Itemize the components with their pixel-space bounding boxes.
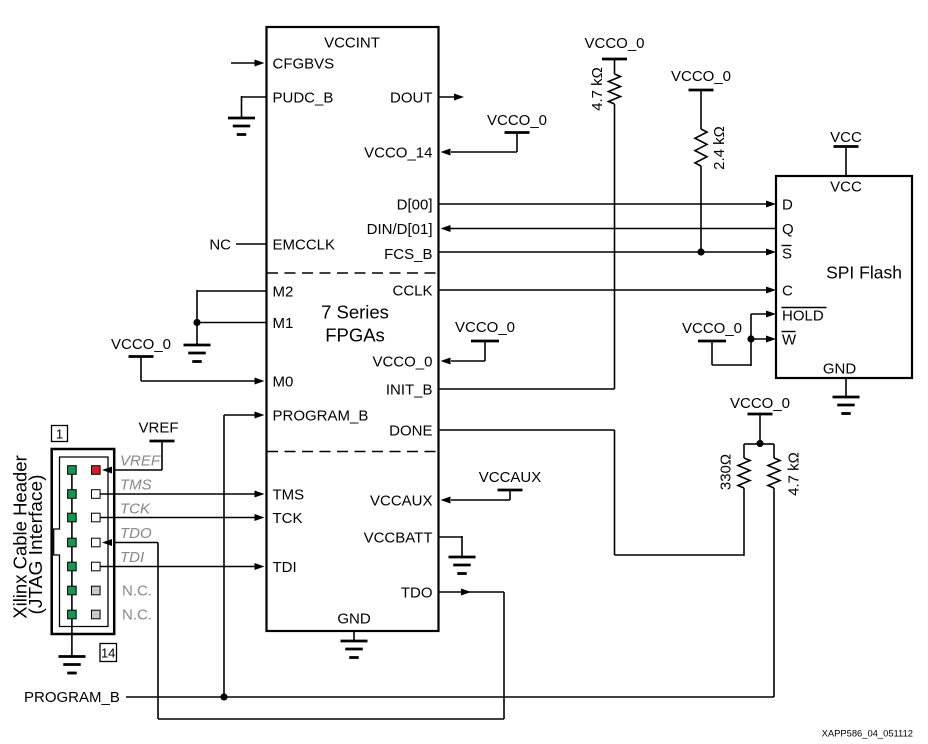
wire FCS_B to flash S with arrow [439,249,777,256]
ground at SPI flash [833,397,860,414]
svg-text:Q: Q [782,221,794,238]
label NC [209,236,231,253]
JTAG header left pin 5 [68,513,77,522]
svg-text:TCK: TCK [273,510,303,527]
junction dot R3/R4 [756,440,763,447]
svg-text:PUDC_B: PUDC_B [273,89,334,106]
FPGA pin label VCCBATT [364,529,433,546]
JTAG header left pin 7 [68,538,77,547]
wire TMS to FPGA with arrow [100,491,265,498]
wire NC to EMCCLK [236,243,267,245]
wire TCK to FPGA with arrow [100,514,265,521]
SPI flash label VCC [830,178,862,195]
svg-text:VCCAUX: VCCAUX [370,492,433,509]
FPGA U1 7 Series FPGAs body [267,27,439,631]
power VCCO_0 bar at R1 [602,58,627,61]
JTAG header left pin 13 [68,610,77,619]
FPGA internal dashed separator lower [267,451,438,453]
wire M2 [197,290,267,292]
junction dot M1/M2 [193,319,200,326]
power VCCO_0 label at FPGA VCCO_0 [455,319,515,336]
label R3 330 Ohm [718,454,735,490]
FPGA pin label EMCCLK [273,236,336,253]
svg-text:N.C.: N.C. [122,606,152,623]
FPGA pin label FCS_B [384,246,432,263]
JTAG signal label TDI [120,549,144,566]
wire PUDC_B to ground [242,96,267,118]
wire junction to R3 top [744,444,760,458]
JTAG label N.C. pin 11 [122,582,152,599]
svg-text:TDI: TDI [120,549,144,566]
svg-text:VCCAUX: VCCAUX [479,469,542,486]
svg-text:C: C [782,282,793,299]
FPGA pin label TMS [273,486,305,503]
JTAG header right pin 14 NC [92,610,101,619]
power VREF bar [150,440,175,443]
JTAG header right pin 6 TCK [92,513,101,522]
wire to W with arrow [751,336,776,343]
svg-text:(JTAG Interface): (JTAG Interface) [25,475,46,615]
FPGA pin label TDO [401,584,433,601]
JTAG signal label TMS [120,477,152,494]
power VCCAUX label [479,469,542,486]
svg-text:PROGRAM_B: PROGRAM_B [273,407,369,424]
wire junction to R4 top [760,444,774,458]
JTAG header right pin 4 TMS [92,490,101,499]
FPGA internal dashed separator upper [267,272,438,274]
JTAG signal label TDO [120,525,152,542]
wire PROGRAM_B vertical to pin with arrow [224,412,265,698]
SPI flash pin label S with overline [782,245,793,262]
svg-text:2.4 kΩ: 2.4 kΩ [711,126,728,170]
power VCCO_0 label at R2 [671,68,731,85]
wire VCCO_0 to VCCO_14 with arrow [441,133,518,156]
svg-text:VCCO_14: VCCO_14 [364,144,432,161]
svg-text:TDO: TDO [120,525,152,542]
ground at JTAG header [59,657,86,674]
svg-text:DONE: DONE [389,422,432,439]
wire VCCO_0 to FPGA pin with arrow [441,341,486,365]
wire VCCO_0 to HOLD and W [712,314,751,366]
power VCCO_0 label at DONE pullups [730,395,790,412]
SPI flash pin label C [782,282,793,299]
power VCCAUX bar [498,489,523,492]
svg-text:DIN/D[01]: DIN/D[01] [367,221,433,238]
SPI flash pin label W with overline [782,331,798,348]
svg-text:VCCBATT: VCCBATT [364,529,433,546]
svg-text:VCCO_0: VCCO_0 [584,35,644,52]
JTAG header inner outline with key notch [54,457,108,627]
svg-text:14: 14 [101,645,115,660]
wire TDO to JTAG header [102,539,504,719]
SPI flash label GND [823,360,857,377]
power VCCO_0 label at M0 [111,336,171,353]
FPGA pin label VCCAUX [370,492,433,509]
wire PROGRAM_B horizontal [126,696,774,698]
FPGA pin label CCLK [392,282,432,299]
svg-text:FCS_B: FCS_B [384,246,432,263]
svg-text:VCCO_0: VCCO_0 [487,112,547,129]
figure reference XAPP586_04_051112 [822,728,913,739]
FPGA title 7 Series FPGAs [321,302,389,346]
JTAG header pin 14 designator box [100,644,117,662]
ground at VCCBATT [449,557,476,574]
wire VCCAUX to pin with arrow [441,490,511,504]
JTAG header right pin 2 VREF [92,466,101,475]
svg-text:330Ω: 330Ω [718,454,735,490]
ground at FPGA GND [341,641,368,658]
wire TDO output with arrow [439,589,505,596]
wire DONE to R3 [439,430,745,556]
resistor R1 4.7 kOhm [609,74,621,104]
JTAG header right pin 8 TDO [92,538,101,547]
FPGA pin label TDI [273,559,297,576]
JTAG header left pin 9 [68,562,77,571]
power VCCO_0 bar at DONE pullups [748,413,773,416]
FPGA pin label M0 [273,373,294,390]
label R2 2.4 kOhm [711,126,728,170]
JTAG header left pin 1 [68,466,77,475]
wire D[00] to flash D with arrow [439,201,777,208]
wire VCCO_0 to R2 [700,90,702,129]
power VREF label [138,420,178,437]
resistor R4 4.7 kOhm [768,458,780,488]
svg-text:7 Series: 7 Series [321,302,389,323]
svg-text:4.7 kΩ: 4.7 kΩ [786,452,803,496]
JTAG header rotated label [10,455,46,619]
FPGA pin label PUDC_B [273,89,334,106]
svg-text:M0: M0 [273,373,294,390]
wire M1 [197,322,267,324]
svg-text:CFGBVS: CFGBVS [273,55,335,72]
FPGA pin label M2 [273,283,294,300]
svg-text:VREF: VREF [138,420,178,437]
svg-text:XAPP586_04_051112: XAPP586_04_051112 [822,728,913,739]
JTAG header right pin 12 NC [92,586,101,595]
SPI flash pin label HOLD with overline [782,307,827,324]
wire CFGBVS input with arrow [231,60,265,67]
wire VCCO_0 to M0 with arrow [141,357,265,385]
wire R4 to PROGRAM_B net [773,488,775,697]
svg-text:CCLK: CCLK [392,282,432,299]
JTAG signal label VREF [120,453,161,470]
power VCCO_0 label at R1 [584,35,644,52]
FPGA pin label TCK [273,510,303,527]
svg-text:EMCCLK: EMCCLK [273,236,336,253]
wire CCLK to flash C with arrow [439,287,777,294]
JTAG signal label TCK [120,501,151,518]
SPI flash pin label Q [782,221,794,238]
power VCCO_0 bar at FPGA VCCO_0 [471,340,499,343]
wire to HOLD with arrow [751,311,776,318]
power VCCO_0 label at VCCO_14 [487,112,547,129]
FPGA pin label D[00] [397,196,433,213]
wire flash Q to DIN/D[01] with arrow [441,225,777,232]
svg-text:VREF: VREF [120,453,161,470]
svg-text:DOUT: DOUT [390,89,433,106]
svg-text:TCK: TCK [120,501,151,518]
JTAG header pin 1 designator box [52,426,68,442]
svg-text:GND: GND [823,360,857,377]
svg-text:PROGRAM_B: PROGRAM_B [24,689,120,706]
svg-text:VCCINT: VCCINT [324,35,380,52]
svg-text:M2: M2 [273,283,294,300]
ground at M1/M2 [184,345,211,362]
svg-text:N.C.: N.C. [122,582,152,599]
svg-text:S: S [782,245,792,262]
wire VCCO_0 down to junction [759,414,761,444]
svg-text:4.7 kΩ: 4.7 kΩ [589,67,606,111]
wire FPGA GND to ground [353,631,355,641]
FPGA pin label DONE [389,422,432,439]
wire VCCO_0 to R1 [614,59,616,74]
svg-text:HOLD: HOLD [782,307,824,324]
svg-text:VCC: VCC [830,178,862,195]
svg-text:VCCO_0: VCCO_0 [682,320,742,337]
svg-text:W: W [782,331,797,348]
label R1 4.7 kOhm [589,67,606,111]
FPGA pin label GND [337,610,371,627]
svg-text:VCCO_0: VCCO_0 [372,353,432,370]
svg-text:M1: M1 [273,315,294,332]
JTAG header left pin 3 [68,490,77,499]
svg-text:INIT_B: INIT_B [386,381,433,398]
FPGA pin label INIT_B [386,381,433,398]
power VCCO_0 bar at HOLD/W [698,340,726,343]
JTAG header J1 outer body [52,449,114,634]
svg-text:VCC: VCC [830,129,862,146]
FPGA pin label DIN/D[01] [367,221,433,238]
wire VCCBATT to ground [439,536,463,557]
wire TDI to FPGA with arrow [100,563,265,570]
svg-text:TMS: TMS [120,477,152,494]
FPGA pin label DOUT [390,89,433,106]
power VCC label [830,129,862,146]
SPI flash title [826,263,902,283]
ground at PUDC_B [228,118,255,135]
junction dot FCS_B / 2.4k pullup [697,248,704,255]
svg-text:TDI: TDI [273,559,297,576]
svg-text:VCCO_0: VCCO_0 [111,336,171,353]
svg-text:FPGAs: FPGAs [325,325,385,346]
junction dot PROGRAM_B [220,693,227,700]
power VCCO_0 label at HOLD/W [682,320,742,337]
JTAG label N.C. pin 13 [122,606,152,623]
label R4 4.7 kOhm [786,452,803,496]
FPGA pin label VCCO_14 [364,144,432,161]
power VCCO_0 bar at M0 [129,355,154,358]
svg-text:SPI Flash: SPI Flash [826,263,902,283]
svg-text:TMS: TMS [273,486,305,503]
svg-text:VCCO_0: VCCO_0 [730,395,790,412]
JTAG header left pin 11 [68,586,77,595]
svg-text:D: D [782,196,793,213]
svg-text:VCCO_0: VCCO_0 [455,319,515,336]
wire M2-M1 to ground vertical [196,290,198,345]
JTAG header left pin column wire [71,470,73,657]
svg-text:GND: GND [337,610,371,627]
resistor R3 330 Ohm [738,458,750,488]
FPGA pin label PROGRAM_B [273,407,369,424]
resistor R2 2.4 kOhm [695,129,707,166]
SPI flash U2 body [776,176,912,378]
FPGA pin label CFGBVS [273,55,335,72]
svg-text:1: 1 [56,427,63,442]
svg-text:NC: NC [209,236,231,253]
wire VCC to flash [845,147,847,177]
label PROGRAM_B [24,689,120,706]
wire DOUT output with arrow [439,94,465,101]
FPGA pin label VCCINT [324,35,380,52]
svg-text:D[00]: D[00] [397,196,433,213]
power VCCO_0 bar at VCCO_14 [505,131,530,134]
JTAG header right pin 10 TDI [92,562,101,571]
wire flash GND to ground [845,378,847,397]
junction dot W branch [747,335,754,342]
wire R2 to FCS_B line [700,166,702,252]
svg-text:TDO: TDO [401,584,433,601]
svg-text:VCCO_0: VCCO_0 [671,68,731,85]
power VCC bar [834,145,859,148]
wire VREF to header pin with arrow [102,441,162,474]
FPGA pin label VCCO_0 [372,353,432,370]
FPGA pin label M1 [273,315,294,332]
SPI flash pin label D [782,196,793,213]
power VCCO_0 bar at R2 [689,89,714,92]
wire R1 to INIT_B [439,104,615,389]
